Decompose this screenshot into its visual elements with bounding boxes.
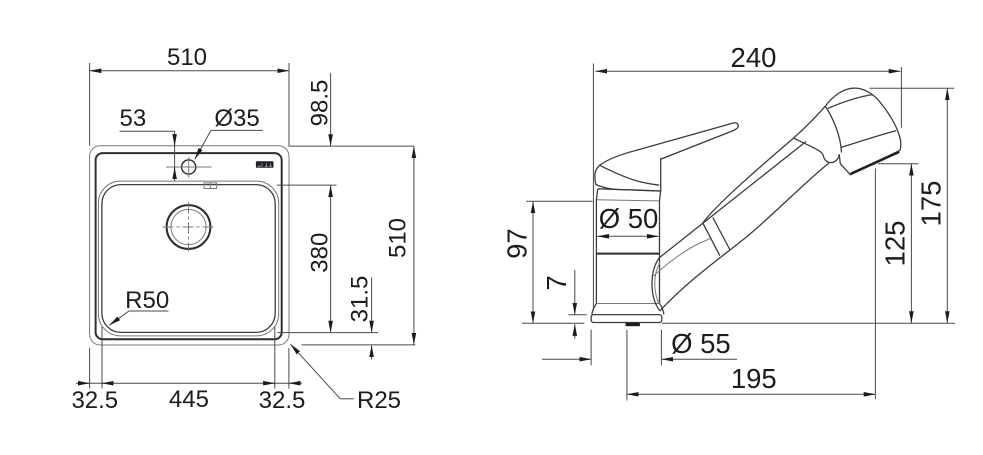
hose end crescent outer arc — [652, 258, 660, 311]
dim 125 — [878, 164, 919, 323]
faucet body top line — [598, 189, 661, 191]
lever dome cap line — [600, 166, 659, 186]
svg-text:32.5: 32.5 — [71, 387, 118, 414]
dim 510 right — [384, 146, 414, 344]
spout seam ring line 2 — [713, 218, 730, 250]
dim 195 — [627, 169, 876, 401]
base plate Ø55 — [591, 315, 662, 323]
svg-text:32.5: 32.5 — [259, 387, 306, 414]
dim 31.5 right — [302, 276, 416, 360]
svg-text:7: 7 — [541, 275, 572, 290]
drain inner circle — [171, 209, 206, 244]
svg-text:175: 175 — [916, 181, 947, 227]
sink inner rim (thick) — [96, 153, 282, 339]
dim 53 tap hole offset — [120, 105, 175, 181]
svg-text:Ø35: Ø35 — [214, 105, 259, 132]
spout upper silhouette to head — [703, 106, 826, 223]
spray face dark band — [851, 152, 900, 174]
faucet collar line — [596, 303, 659, 305]
svg-text:98.5: 98.5 — [306, 80, 333, 127]
spray head outline — [823, 88, 901, 175]
head lower-back seam curve — [794, 138, 824, 155]
spout tube lower edge — [660, 163, 829, 311]
spout seam ring line 1 — [703, 223, 720, 256]
tap hole Ø35 — [182, 160, 196, 174]
svg-text:31.5: 31.5 — [346, 276, 373, 323]
bowl inner edge 445x380 R50 — [102, 185, 275, 333]
dim 175 — [869, 88, 954, 323]
base plate logo — [626, 323, 640, 326]
dim Ø50 — [597, 203, 658, 236]
collar flare right — [660, 304, 664, 315]
label R25 with leader — [291, 344, 402, 414]
overflow mark — [204, 183, 217, 189]
collar flare left — [592, 304, 597, 315]
spray head back ring — [825, 106, 842, 153]
dim 380 right — [277, 185, 378, 333]
svg-text:Ø 55: Ø 55 — [671, 328, 731, 359]
hose end crescent inner arc — [655, 262, 661, 307]
spray head seam S2 — [841, 131, 896, 148]
faucet body neck seam — [597, 200, 660, 201]
faucet body thick seam — [596, 253, 659, 255]
spout tube upper edge — [659, 142, 806, 259]
svg-text:240: 240 — [731, 42, 777, 73]
label R50 with leader — [109, 287, 169, 325]
spray head seam S1 — [828, 95, 873, 109]
dims 32.5 445 32.5 bottom — [71, 327, 305, 414]
counter reference line right segment — [662, 322, 955, 324]
dim 98.5 right — [289, 73, 414, 146]
franke logo block on rim — [256, 161, 274, 168]
svg-text:53: 53 — [120, 105, 147, 132]
svg-text:97: 97 — [502, 228, 533, 259]
dim 7 — [541, 270, 587, 339]
dim 510 top — [90, 44, 289, 146]
svg-text:380: 380 — [306, 233, 333, 273]
spout middle contour — [654, 239, 711, 276]
svg-text:510: 510 — [384, 218, 411, 258]
faucet body right edge — [660, 191, 661, 304]
svg-text:510: 510 — [167, 44, 207, 71]
svg-text:125: 125 — [880, 221, 911, 267]
tap hole crosshair — [166, 157, 212, 178]
svg-text:Ø 50: Ø 50 — [599, 203, 659, 234]
dim Ø35 with leader — [195, 105, 263, 159]
counter reference line left segment — [522, 322, 584, 324]
faucet lever handle — [595, 123, 738, 191]
svg-text:445: 445 — [169, 386, 209, 413]
dim 97 — [502, 201, 593, 323]
svg-text:R25: R25 — [357, 387, 401, 414]
svg-text:R50: R50 — [125, 287, 169, 314]
dim Ø55 — [542, 328, 737, 365]
sink outer edge 510x510 — [90, 146, 289, 345]
svg-text:195: 195 — [731, 363, 777, 394]
bowl outer rim — [98, 181, 278, 336]
faucet body left edge — [596, 189, 597, 304]
drain outer circle — [167, 205, 211, 249]
drain centerlines — [163, 203, 215, 252]
dim 240 top — [593, 42, 901, 311]
